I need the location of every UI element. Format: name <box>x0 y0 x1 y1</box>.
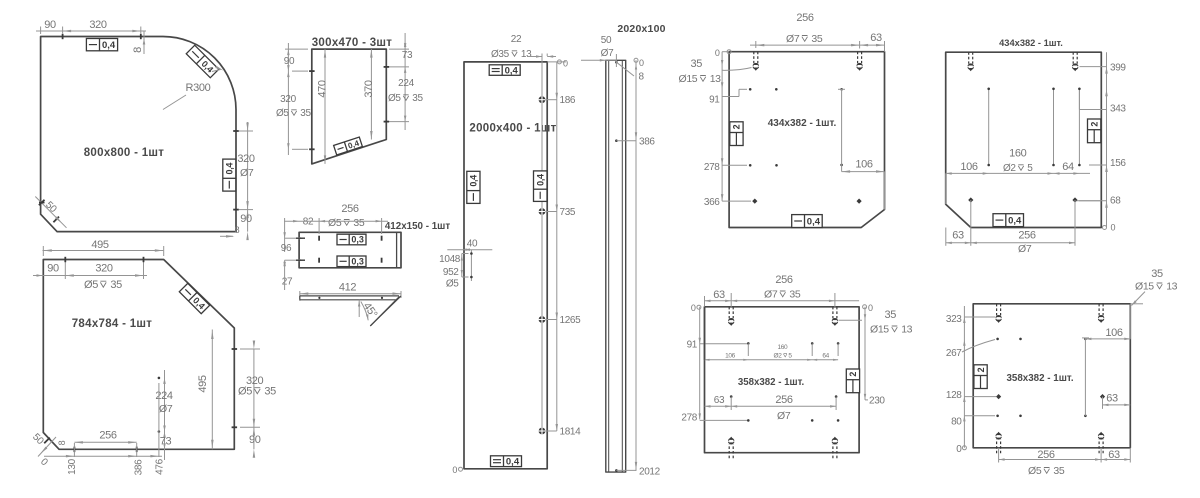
svg-text:323: 323 <box>946 314 962 325</box>
svg-text:106: 106 <box>960 161 978 173</box>
svg-text:8: 8 <box>132 47 144 53</box>
svg-text:35: 35 <box>300 108 311 119</box>
svg-text:82: 82 <box>303 217 314 228</box>
svg-text:128: 128 <box>946 390 962 401</box>
svg-text:130: 130 <box>67 458 78 474</box>
svg-text:256: 256 <box>775 394 793 406</box>
svg-text:386: 386 <box>639 137 655 148</box>
svg-text:0: 0 <box>38 456 50 468</box>
svg-text:300x470 - 3шт: 300x470 - 3шт <box>312 37 393 49</box>
svg-text:Ø5: Ø5 <box>84 279 98 291</box>
svg-text:13: 13 <box>1166 281 1177 293</box>
svg-text:Ø5: Ø5 <box>276 108 289 119</box>
svg-text:186: 186 <box>560 95 576 106</box>
svg-text:63: 63 <box>714 395 725 406</box>
svg-text:64: 64 <box>1062 161 1074 173</box>
svg-text:35: 35 <box>110 279 122 291</box>
svg-text:91: 91 <box>687 339 698 350</box>
svg-text:278: 278 <box>681 413 697 424</box>
svg-text:952: 952 <box>443 267 459 278</box>
svg-text:0: 0 <box>868 303 873 313</box>
svg-text:8: 8 <box>639 72 645 83</box>
svg-text:90: 90 <box>44 19 56 31</box>
svg-text:343: 343 <box>1110 104 1126 115</box>
svg-text:2: 2 <box>1089 122 1099 127</box>
svg-text:0,4: 0,4 <box>807 217 821 228</box>
svg-text:90: 90 <box>249 434 261 446</box>
svg-text:0,4: 0,4 <box>102 40 116 51</box>
svg-text:0,4: 0,4 <box>225 163 235 175</box>
svg-text:Ø7: Ø7 <box>777 410 791 422</box>
svg-text:Ø2: Ø2 <box>1003 163 1016 174</box>
svg-text:412x150 - 1шт: 412x150 - 1шт <box>385 221 450 232</box>
svg-text:Ø15: Ø15 <box>1135 281 1154 293</box>
svg-text:35: 35 <box>353 217 364 229</box>
svg-text:8: 8 <box>235 225 240 235</box>
svg-text:13: 13 <box>901 324 912 336</box>
svg-text:320: 320 <box>95 263 113 275</box>
svg-text:0: 0 <box>956 444 962 455</box>
svg-text:256: 256 <box>99 430 117 442</box>
svg-text:35: 35 <box>1053 465 1064 477</box>
svg-text:35: 35 <box>690 58 702 70</box>
svg-text:Ø5: Ø5 <box>446 279 459 290</box>
svg-text:0,4: 0,4 <box>505 66 519 77</box>
svg-text:0: 0 <box>452 465 457 475</box>
svg-text:434x382 - 1шт.: 434x382 - 1шт. <box>999 38 1063 48</box>
svg-text:256: 256 <box>341 203 359 215</box>
svg-text:Ø15: Ø15 <box>870 324 889 336</box>
svg-text:27: 27 <box>282 277 293 288</box>
svg-text:50: 50 <box>30 432 46 448</box>
svg-text:13: 13 <box>521 49 532 60</box>
svg-text:5: 5 <box>788 353 792 360</box>
svg-text:91: 91 <box>709 95 720 106</box>
svg-text:2000x400 - 1шт: 2000x400 - 1шт <box>469 123 556 135</box>
svg-text:412: 412 <box>339 282 357 294</box>
svg-text:0,4: 0,4 <box>536 174 546 186</box>
svg-text:Ø7: Ø7 <box>240 167 254 179</box>
svg-text:106: 106 <box>1105 327 1123 339</box>
svg-text:106: 106 <box>855 159 873 171</box>
svg-text:50: 50 <box>601 35 612 46</box>
svg-text:2: 2 <box>976 367 986 372</box>
svg-text:224: 224 <box>155 390 173 402</box>
svg-text:1265: 1265 <box>560 315 582 326</box>
svg-text:386: 386 <box>134 459 145 475</box>
svg-text:0: 0 <box>639 58 644 68</box>
svg-text:0: 0 <box>1111 223 1116 233</box>
svg-text:278: 278 <box>704 162 720 173</box>
svg-text:2020x100: 2020x100 <box>617 23 665 35</box>
svg-text:784x784 - 1шт: 784x784 - 1шт <box>72 318 153 330</box>
svg-text:0: 0 <box>715 48 720 58</box>
svg-text:476: 476 <box>155 458 166 474</box>
svg-text:73: 73 <box>160 436 172 448</box>
svg-text:1048: 1048 <box>439 254 461 265</box>
svg-text:Ø7: Ø7 <box>1018 243 1032 255</box>
svg-text:256: 256 <box>796 12 814 24</box>
svg-text:22: 22 <box>511 34 522 45</box>
svg-text:8: 8 <box>57 440 67 445</box>
svg-text:Ø35: Ø35 <box>491 49 510 60</box>
svg-text:13: 13 <box>710 73 721 85</box>
svg-text:Ø7: Ø7 <box>601 48 614 59</box>
svg-text:Ø15: Ø15 <box>679 73 698 85</box>
svg-text:495: 495 <box>91 239 109 251</box>
svg-text:35: 35 <box>885 309 897 321</box>
svg-text:80: 80 <box>951 417 962 428</box>
svg-text:106: 106 <box>725 353 736 360</box>
svg-text:156: 156 <box>1110 158 1126 169</box>
svg-text:35: 35 <box>412 93 423 104</box>
svg-text:45°: 45° <box>361 300 380 320</box>
svg-text:0,4: 0,4 <box>506 457 520 468</box>
svg-text:160: 160 <box>778 344 789 351</box>
svg-text:35: 35 <box>811 33 822 45</box>
svg-text:2012: 2012 <box>639 466 661 477</box>
svg-text:Ø2: Ø2 <box>774 353 783 360</box>
svg-text:Ø5: Ø5 <box>238 386 252 398</box>
svg-text:800x800 - 1шт: 800x800 - 1шт <box>84 147 165 159</box>
svg-text:Ø7: Ø7 <box>786 33 800 45</box>
svg-text:0,3: 0,3 <box>351 257 364 267</box>
svg-text:256: 256 <box>1037 449 1055 461</box>
svg-text:230: 230 <box>869 396 885 407</box>
svg-text:495: 495 <box>197 375 209 393</box>
svg-text:35: 35 <box>1151 268 1163 280</box>
svg-text:2: 2 <box>848 372 858 377</box>
svg-text:470: 470 <box>317 80 329 98</box>
svg-text:434x382 - 1шт.: 434x382 - 1шт. <box>768 118 837 129</box>
svg-text:320: 320 <box>280 94 296 105</box>
svg-text:256: 256 <box>1018 230 1036 242</box>
svg-text:Ø5: Ø5 <box>1028 465 1042 477</box>
svg-text:63: 63 <box>952 230 964 242</box>
svg-text:50: 50 <box>43 200 59 216</box>
svg-text:0,4: 0,4 <box>469 175 479 187</box>
svg-text:90: 90 <box>240 213 252 225</box>
svg-text:35: 35 <box>789 289 800 301</box>
svg-text:R300: R300 <box>186 82 211 94</box>
svg-text:5: 5 <box>1027 163 1033 174</box>
svg-text:0: 0 <box>691 303 696 313</box>
svg-text:Ø5: Ø5 <box>388 93 401 104</box>
svg-text:73: 73 <box>402 50 413 61</box>
svg-text:35: 35 <box>264 386 276 398</box>
svg-text:96: 96 <box>281 243 292 254</box>
svg-text:Ø7: Ø7 <box>764 289 778 301</box>
svg-text:267: 267 <box>946 348 962 359</box>
svg-text:1814: 1814 <box>560 427 582 438</box>
svg-text:0,4: 0,4 <box>1008 216 1022 227</box>
svg-text:0,3: 0,3 <box>351 235 364 245</box>
svg-text:399: 399 <box>1110 63 1126 74</box>
svg-text:0: 0 <box>563 59 568 69</box>
svg-text:64: 64 <box>822 353 829 360</box>
svg-text:358x382 - 1шт.: 358x382 - 1шт. <box>1006 373 1073 384</box>
svg-text:63: 63 <box>713 289 725 301</box>
svg-text:40: 40 <box>467 238 478 249</box>
svg-text:366: 366 <box>704 197 720 208</box>
svg-text:63: 63 <box>870 32 882 44</box>
svg-text:2: 2 <box>732 124 742 129</box>
svg-text:63: 63 <box>1108 449 1120 461</box>
svg-text:Ø5: Ø5 <box>328 217 342 229</box>
svg-text:320: 320 <box>237 153 255 165</box>
svg-text:160: 160 <box>1009 148 1027 160</box>
svg-text:90: 90 <box>47 263 59 275</box>
svg-text:Ø7: Ø7 <box>159 403 173 415</box>
svg-text:68: 68 <box>1110 196 1121 207</box>
svg-text:358x382 - 1шт.: 358x382 - 1шт. <box>738 377 805 388</box>
svg-text:735: 735 <box>560 207 576 218</box>
svg-text:224: 224 <box>398 78 414 89</box>
svg-text:256: 256 <box>775 274 793 286</box>
svg-text:90: 90 <box>284 56 295 67</box>
svg-text:370: 370 <box>363 80 375 98</box>
svg-text:320: 320 <box>89 19 107 31</box>
svg-text:63: 63 <box>1106 393 1118 405</box>
